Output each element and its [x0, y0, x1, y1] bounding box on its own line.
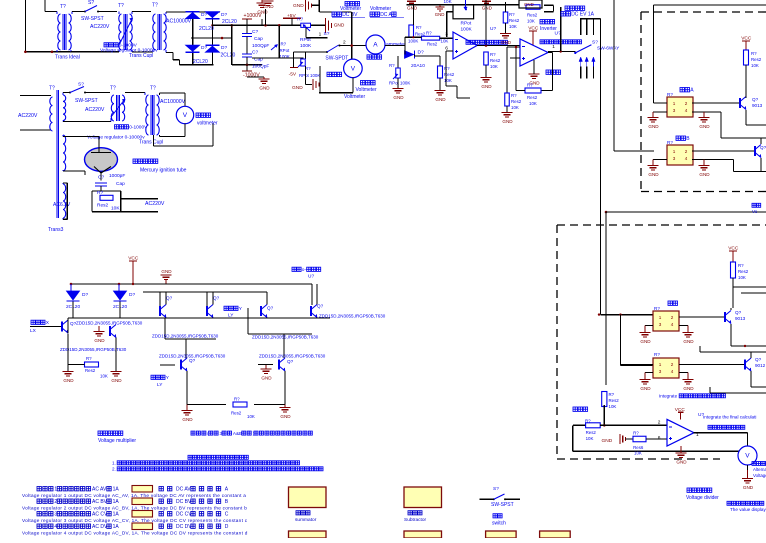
svg-text:RPot: RPot — [299, 73, 310, 78]
svg-text:10K: 10K — [738, 275, 746, 280]
svg-text:Voltage regulator 4 output DC: Voltage regulator 4 output DC voltage AC… — [22, 531, 248, 536]
svg-text:100K: 100K — [300, 43, 312, 49]
svg-text:R?: R? — [667, 140, 673, 145]
svg-text:3: 3 — [659, 369, 662, 374]
svg-text:ZDD15D,2N3055,IRGP50B,T630: ZDD15D,2N3055,IRGP50B,T630 — [252, 335, 319, 340]
svg-text:GND: GND — [743, 485, 754, 490]
svg-text:Res6: Res6 — [633, 445, 644, 450]
svg-text:SW-SPST: SW-SPST — [491, 502, 514, 508]
svg-text:Voltage divider: Voltage divider — [686, 495, 719, 501]
svg-text:Voltmeter: Voltmeter — [340, 6, 361, 12]
svg-text:R?: R? — [654, 306, 660, 311]
svg-text:R?: R? — [633, 431, 639, 436]
svg-text:Voltmeter: Voltmeter — [344, 94, 365, 100]
svg-text:3: 3 — [659, 322, 662, 327]
svg-text:2: 2 — [685, 101, 688, 106]
svg-text:Q?: Q? — [267, 306, 274, 311]
svg-text:DC AV: DC AV — [176, 487, 191, 493]
svg-text:9013: 9013 — [735, 316, 746, 321]
svg-text:1A: 1A — [113, 512, 120, 518]
svg-text:GND: GND — [640, 386, 651, 391]
svg-text:Q?: Q? — [287, 359, 294, 364]
svg-text:T?: T? — [110, 86, 116, 92]
svg-text:S?: S? — [324, 31, 330, 37]
svg-text:Res2: Res2 — [85, 368, 96, 373]
svg-text:2CL20: 2CL20 — [221, 53, 236, 59]
svg-text:S?: S? — [493, 486, 499, 492]
svg-text:Trans Cupl: Trans Cupl — [139, 140, 163, 146]
svg-text:R?: R? — [654, 352, 660, 357]
svg-text:9012: 9012 — [755, 363, 766, 368]
svg-text:S?: S? — [78, 82, 84, 88]
svg-text:GND: GND — [94, 338, 105, 343]
svg-text:ZDD15D,2N3055,IRGP50B,T630: ZDD15D,2N3055,IRGP50B,T630 — [60, 347, 127, 352]
svg-text:10K: 10K — [444, 78, 452, 83]
svg-text:ZDD15D,2N3055,IRGP50B,T630: ZDD15D,2N3055,IRGP50B,T630 — [319, 314, 386, 319]
svg-text:U?: U? — [555, 31, 561, 37]
svg-text:C?: C? — [98, 175, 104, 181]
svg-text:100K: 100K — [400, 81, 410, 86]
svg-text:Res2: Res2 — [751, 57, 762, 62]
svg-text:100QpF: 100QpF — [252, 64, 269, 70]
svg-text:Alternat: Alternat — [753, 467, 766, 472]
svg-text:10K: 10K — [509, 24, 517, 29]
svg-text:1A: 1A — [113, 499, 120, 505]
svg-text:10K: 10K — [247, 414, 255, 419]
svg-text:GND: GND — [502, 119, 513, 124]
svg-text:GND: GND — [280, 414, 291, 419]
svg-text:1: 1 — [659, 315, 662, 320]
svg-text:AC10000V: AC10000V — [166, 19, 192, 25]
svg-text:R?: R? — [609, 392, 615, 397]
svg-text:Voltmeter: Voltmeter — [356, 87, 377, 93]
svg-text:4: 4 — [685, 108, 688, 113]
svg-text:DC CV: DC CV — [176, 512, 192, 518]
svg-text:6: 6 — [658, 435, 661, 441]
svg-text:V: V — [745, 453, 750, 460]
svg-text:2: 2 — [671, 362, 674, 367]
svg-text:Cap: Cap — [116, 181, 125, 187]
svg-text:AC10000V: AC10000V — [160, 99, 186, 105]
svg-text:R?: R? — [738, 263, 744, 268]
svg-text:3: 3 — [445, 32, 448, 38]
svg-text:AC BV: AC BV — [92, 499, 108, 505]
svg-text:GND: GND — [435, 12, 445, 17]
svg-text:10K: 10K — [527, 19, 535, 24]
svg-text:100QpF: 100QpF — [252, 43, 269, 49]
svg-text:GND: GND — [648, 124, 659, 129]
svg-text:R?: R? — [426, 31, 432, 36]
svg-text:3: 3 — [673, 156, 676, 161]
svg-text:GND: GND — [640, 339, 651, 344]
svg-text:ZDD15D,2N3055,IRGP50B,T630: ZDD15D,2N3055,IRGP50B,T630 — [259, 354, 326, 359]
svg-text:D?: D? — [418, 50, 424, 56]
svg-text:S?: S? — [592, 40, 598, 46]
svg-text:1: 1 — [659, 362, 662, 367]
svg-text:R?: R? — [511, 93, 517, 98]
svg-text:Voltage regulator 2 output DC: Voltage regulator 2 output DC voltage AC… — [22, 506, 247, 511]
svg-text:GND: GND — [334, 22, 345, 28]
svg-text:T?: T? — [60, 4, 66, 10]
svg-text:GND: GND — [481, 84, 492, 89]
svg-text:Voltage: Voltage — [753, 473, 766, 478]
svg-text:10K: 10K — [490, 64, 498, 69]
svg-text:10K: 10K — [444, 0, 453, 4]
svg-text:A: A — [373, 42, 378, 49]
svg-text:GND: GND — [683, 386, 694, 391]
svg-text:Trans Cupl: Trans Cupl — [129, 53, 153, 59]
svg-text:1: 1 — [673, 149, 676, 154]
svg-text:R?: R? — [527, 83, 533, 88]
svg-text:GND: GND — [257, 10, 268, 15]
svg-text:RPot: RPot — [280, 48, 291, 53]
svg-text:-5V: -5V — [289, 71, 297, 77]
svg-text:Voltmeter: Voltmeter — [370, 6, 391, 12]
svg-text:ZDD15D,2N3055,IRGP50B,T630: ZDD15D,2N3055,IRGP50B,T630 — [159, 354, 226, 359]
svg-text:100K: 100K — [461, 27, 473, 33]
svg-text:2: 2 — [685, 149, 688, 154]
svg-text:GND: GND — [111, 378, 122, 383]
svg-text:DC BV: DC BV — [176, 499, 192, 505]
svg-text:U?: U? — [490, 26, 496, 32]
svg-text:R?: R? — [751, 51, 757, 56]
svg-text:4: 4 — [671, 369, 674, 374]
svg-text:2: 2 — [671, 315, 674, 320]
svg-text:10K: 10K — [100, 374, 108, 379]
svg-text:10K: 10K — [511, 105, 519, 110]
svg-text:A&B: A&B — [233, 431, 242, 436]
svg-text:R?: R? — [86, 356, 92, 361]
svg-text:SW-SPST: SW-SPST — [75, 98, 98, 104]
svg-text:1.: 1. — [112, 461, 116, 466]
svg-text:4: 4 — [685, 156, 688, 161]
svg-text:1: 1 — [673, 101, 676, 106]
svg-text:AC AV: AC AV — [92, 487, 107, 493]
svg-text:ZDD15D,2N3055,IRGP50B,T630: ZDD15D,2N3055,IRGP50B,T630 — [76, 321, 143, 326]
svg-text:Q?: Q? — [755, 357, 762, 362]
svg-text:GND: GND — [435, 97, 446, 102]
svg-text:10K: 10K — [586, 436, 594, 441]
svg-text:R?: R? — [444, 66, 450, 71]
svg-text:SW-SPST: SW-SPST — [81, 16, 104, 22]
svg-text:GND: GND — [676, 460, 687, 465]
svg-text:Voltage regulator 0-10000v: Voltage regulator 0-10000v — [87, 135, 145, 141]
svg-text:R?: R? — [490, 52, 496, 57]
svg-text:DC EV 1A: DC EV 1A — [571, 12, 594, 18]
svg-text:Res2: Res2 — [490, 58, 501, 63]
svg-text:10K: 10K — [634, 451, 642, 456]
svg-text:10K: 10K — [111, 206, 120, 212]
svg-text:U?: U? — [308, 274, 314, 280]
svg-text:summator: summator — [295, 517, 317, 523]
svg-text:Vo: Vo — [752, 209, 758, 214]
svg-text:1000pF: 1000pF — [109, 173, 125, 179]
svg-text:R?: R? — [416, 25, 422, 30]
svg-text:D?: D? — [82, 292, 88, 298]
svg-text:GND: GND — [501, 40, 512, 45]
svg-text:Res2: Res2 — [586, 430, 597, 435]
svg-text:Q?: Q? — [213, 296, 220, 301]
svg-text:GND: GND — [699, 172, 710, 177]
svg-text:GND: GND — [293, 3, 304, 9]
svg-text:R?: R? — [281, 42, 287, 47]
svg-text:switch: switch — [492, 521, 506, 527]
svg-text:GND: GND — [602, 438, 613, 444]
svg-text:GND: GND — [482, 5, 493, 10]
svg-text:GND: GND — [263, 4, 274, 9]
svg-text:10K: 10K — [609, 404, 617, 409]
svg-text:Cap: Cap — [254, 36, 263, 42]
svg-text:100K: 100K — [310, 73, 320, 78]
svg-text:The value displayed: The value displayed — [730, 507, 766, 512]
svg-text:AC220V: AC220V — [145, 201, 165, 207]
svg-text:ZDD15D,2N3055,IRGP50B,T630: ZDD15D,2N3055,IRGP50B,T630 — [152, 334, 219, 339]
svg-text:Res2: Res2 — [231, 411, 242, 416]
svg-text:2CL20: 2CL20 — [199, 26, 214, 32]
svg-text:D?: D? — [221, 45, 227, 51]
svg-text:GND: GND — [261, 376, 272, 381]
svg-text:V: V — [183, 112, 188, 119]
svg-text:Res2: Res2 — [527, 95, 538, 100]
svg-text:SW-SPDT: SW-SPDT — [325, 55, 348, 61]
svg-text:Trans3: Trans3 — [48, 227, 64, 233]
svg-text:S?: S? — [88, 0, 94, 6]
svg-text:2.: 2. — [112, 467, 116, 472]
svg-text:AC220V: AC220V — [18, 113, 38, 119]
svg-text:R?: R? — [389, 63, 395, 68]
svg-text:Integrate: Integrate — [659, 394, 678, 399]
svg-text:GND: GND — [63, 378, 74, 383]
svg-text:Q?: Q? — [317, 304, 324, 309]
svg-text:Q?: Q? — [189, 358, 196, 363]
svg-text:AC220V: AC220V — [90, 24, 110, 30]
svg-text:AC CV: AC CV — [92, 512, 108, 518]
svg-text:Res2: Res2 — [527, 13, 538, 18]
svg-text:D?: D? — [221, 12, 227, 18]
svg-text:GND: GND — [683, 339, 694, 344]
svg-text:LY: LY — [228, 313, 234, 319]
svg-text:9013: 9013 — [752, 103, 763, 108]
svg-text:Mercury ignition tube: Mercury ignition tube — [140, 168, 187, 174]
svg-text:V: V — [351, 66, 356, 73]
svg-text:100K: 100K — [408, 39, 418, 44]
svg-text:GND: GND — [699, 124, 710, 129]
svg-text:T?: T? — [118, 3, 124, 9]
svg-text:GND: GND — [182, 417, 193, 422]
svg-text:GND: GND — [648, 172, 659, 177]
svg-text:R?: R? — [234, 397, 240, 402]
svg-text:LX: LX — [30, 328, 37, 334]
svg-text:AC6.3V: AC6.3V — [53, 202, 71, 208]
svg-text:Res2: Res2 — [609, 398, 620, 403]
svg-text:2CL20: 2CL20 — [222, 19, 237, 25]
svg-text:1: 1 — [319, 32, 322, 38]
svg-text:Voltage multiplier: Voltage multiplier — [98, 438, 136, 444]
svg-text:10K: 10K — [441, 39, 449, 44]
svg-text:Res2: Res2 — [511, 99, 522, 104]
svg-text:voltmeter: voltmeter — [197, 121, 218, 127]
svg-text:Trans Ideal: Trans Ideal — [55, 55, 80, 61]
svg-text:GND: GND — [407, 5, 418, 10]
svg-text:1: 1 — [552, 44, 555, 50]
svg-text:R?: R? — [667, 92, 673, 97]
svg-text:Voltage regulator 1 output DC: Voltage regulator 1 output DC voltage AC… — [22, 493, 246, 498]
svg-text:C?: C? — [252, 50, 258, 56]
svg-text:R?: R? — [585, 418, 591, 423]
svg-text:Subtractor: Subtractor — [404, 517, 427, 523]
svg-text:Q?: Q? — [760, 145, 766, 150]
svg-text:2: 2 — [343, 40, 346, 46]
svg-text:D: D — [225, 524, 229, 530]
svg-text:T?: T? — [152, 3, 158, 9]
svg-text:Q?: Q? — [166, 296, 173, 301]
svg-text:Res2: Res2 — [509, 18, 520, 23]
svg-text:D?: D? — [201, 45, 207, 51]
svg-text:GND: GND — [524, 2, 534, 7]
svg-text:Voltage regulator 3 output DC: Voltage regulator 3 output DC voltage AC… — [22, 518, 248, 523]
svg-text:Res2: Res2 — [738, 269, 749, 274]
svg-text:Res2: Res2 — [427, 42, 438, 47]
svg-text:C: C — [225, 512, 229, 518]
svg-text:Res2: Res2 — [415, 32, 426, 37]
svg-text:AC220V: AC220V — [85, 107, 105, 113]
svg-text:Res2: Res2 — [97, 203, 109, 209]
svg-text:Q?: Q? — [752, 97, 759, 102]
svg-text:1A: 1A — [113, 524, 120, 530]
svg-text:GND: GND — [393, 95, 404, 100]
svg-text:Q?: Q? — [735, 310, 742, 315]
svg-text:Integrate the final calculati: Integrate the final calculati — [703, 415, 756, 420]
svg-text:0-1000V: 0-1000V — [119, 43, 138, 49]
svg-text:2: 2 — [658, 419, 661, 425]
svg-text:10K: 10K — [751, 63, 759, 68]
svg-text:20A10: 20A10 — [411, 63, 425, 69]
svg-text:GND: GND — [161, 269, 172, 274]
svg-text:4: 4 — [671, 322, 674, 327]
svg-text:D?: D? — [129, 292, 135, 298]
svg-text:10K: 10K — [529, 101, 537, 106]
svg-text:LY: LY — [157, 382, 163, 388]
svg-text:DC DV: DC DV — [176, 524, 192, 530]
svg-text:C?: C? — [252, 29, 258, 35]
svg-text:GND: GND — [259, 86, 270, 91]
svg-text:AC DV: AC DV — [92, 524, 108, 530]
svg-text:R?: R? — [509, 12, 515, 17]
svg-text:1A: 1A — [113, 487, 120, 493]
svg-text:GND: GND — [292, 85, 303, 91]
svg-text:R?: R? — [297, 17, 303, 22]
svg-text:T?: T? — [150, 86, 156, 92]
svg-text:T?: T? — [49, 86, 55, 92]
svg-text:3: 3 — [673, 108, 676, 113]
svg-text:RPot: RPot — [461, 20, 472, 26]
svg-text:R?: R? — [97, 190, 103, 196]
svg-text:2CL20: 2CL20 — [193, 59, 208, 65]
